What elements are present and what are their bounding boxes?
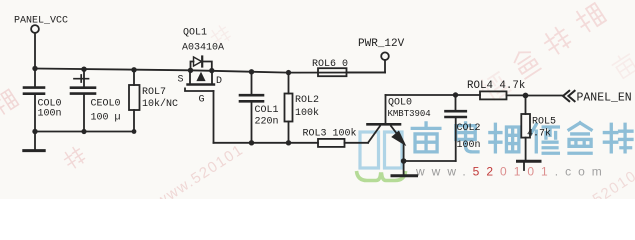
- svg-text:ROL3 100k: ROL3 100k: [303, 128, 357, 140]
- wire bottom gate bus: [214, 142, 319, 144]
- transistor QOL0 collector: [385, 95, 387, 124]
- svg-text:ROL4 4.7k: ROL4 4.7k: [467, 80, 525, 92]
- node top bus junctions: [32, 66, 291, 76]
- svg-text:PANEL_EN: PANEL_EN: [577, 92, 632, 105]
- watermark blue logo box right: [385, 132, 403, 168]
- svg-text:COL2: COL2: [457, 123, 481, 134]
- svg-text:QOL0: QOL0: [388, 98, 412, 109]
- node bottom bus junctions: [249, 140, 291, 145]
- terminal PANEL_VCC: [31, 25, 39, 33]
- mosfet QOL1 channel and substrate arrow: [190, 70, 212, 83]
- svg-text:QOL1: QOL1: [183, 28, 207, 39]
- svg-text:ROL2: ROL2: [295, 95, 319, 106]
- watermark pink diagonal bottom-right: [564, 167, 635, 225]
- watermark pink diagonal band top-right chinese: [478, 1, 635, 103]
- wire to chevron: [526, 95, 563, 97]
- svg-text:A03410A: A03410A: [182, 43, 224, 54]
- svg-text:ROL5: ROL5: [532, 116, 556, 127]
- CEOL0 plus sign: [74, 75, 89, 82]
- wire top bus: [35, 69, 385, 73]
- capacitor COL0: [34, 69, 36, 132]
- wire gate down: [213, 91, 215, 143]
- svg-text:S: S: [178, 75, 184, 86]
- svg-text:100n: 100n: [38, 109, 62, 120]
- ground under QOL0: [403, 161, 405, 175]
- terminal PWR_12V: [384, 60, 386, 73]
- svg-text:100n: 100n: [457, 140, 481, 151]
- ground left: [34, 132, 36, 150]
- mosfet QOL1 body diode: [191, 62, 212, 71]
- node emitter junction: [401, 158, 407, 164]
- svg-text:www.520101.com: www.520101.com: [415, 164, 609, 178]
- resistor ROL3: [318, 139, 345, 147]
- ground under ROL5: [518, 160, 541, 163]
- resistor ROL7: [133, 70, 135, 132]
- svg-text:220n: 220n: [255, 117, 279, 128]
- svg-text:D: D: [216, 76, 222, 87]
- mosfet QOL1 gate: [185, 88, 214, 91]
- transistor QOL0 emitter: [391, 126, 404, 161]
- capacitor CEOL0: [83, 69, 85, 131]
- svg-text:PWR_12V: PWR_12V: [358, 38, 405, 50]
- resistor ROL4: [480, 91, 507, 99]
- svg-text:ROL6 0: ROL6 0: [312, 59, 348, 70]
- svg-text:100k: 100k: [295, 107, 319, 119]
- capacitor COL1: [251, 72, 253, 143]
- svg-text:PANEL_VCC: PANEL_VCC: [14, 15, 68, 26]
- svg-text:CEOL0: CEOL0: [91, 99, 121, 110]
- node collector bus junctions: [453, 92, 529, 98]
- resistor ROL5: [525, 96, 527, 115]
- wire emitter to COL2 bottom: [404, 160, 456, 162]
- chevron PANEL_EN: [563, 91, 575, 101]
- wire PANEL_VCC down: [34, 33, 36, 69]
- watermark pink diagonal band middle-left www.520101: [152, 141, 247, 211]
- watermark blue logo box left: [360, 132, 379, 168]
- watermark pink faint marks left: [0, 24, 232, 170]
- resistor ROL2: [288, 73, 290, 143]
- watermark blue chinese row: [412, 123, 632, 153]
- wire collector bus: [386, 94, 526, 96]
- watermark green book swoosh: [357, 171, 406, 181]
- svg-text:COL1: COL1: [255, 105, 279, 116]
- resistor ROL6: [318, 68, 347, 76]
- watermark red url: [415, 164, 609, 178]
- svg-text:ROL7: ROL7: [142, 87, 166, 98]
- capacitor COL2: [455, 95, 457, 161]
- transistor QOL0 base: [368, 126, 380, 143]
- svg-text:10k/NC: 10k/NC: [142, 98, 178, 110]
- wire ground bus left: [35, 131, 134, 133]
- svg-text:G: G: [199, 95, 205, 106]
- svg-text:KMBT3904: KMBT3904: [388, 109, 431, 119]
- svg-text:www.520101: www.520101: [152, 141, 247, 199]
- svg-text:4.7k: 4.7k: [527, 128, 551, 140]
- node ground bus junctions: [32, 129, 136, 134]
- svg-text:100 µ: 100 µ: [91, 113, 121, 124]
